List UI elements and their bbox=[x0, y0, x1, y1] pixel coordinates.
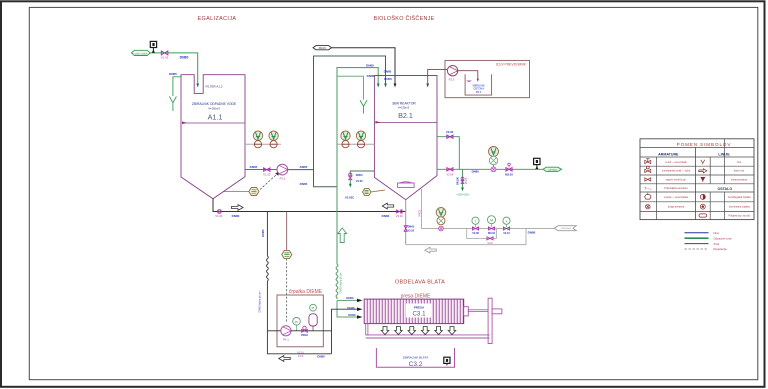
svg-text:PRESA: PRESA bbox=[414, 305, 425, 309]
svg-text:DN80: DN80 bbox=[367, 74, 375, 78]
gauge PI bbox=[293, 318, 301, 331]
node level line A1.1 bbox=[182, 122, 245, 124]
svg-text:V2.08: V2.08 bbox=[472, 232, 479, 235]
svg-text:M: M bbox=[490, 219, 493, 223]
valve V2.08 with gauge bbox=[472, 217, 479, 235]
line legend bbox=[685, 231, 733, 251]
wire branch P1.1 riser down to green main bbox=[314, 170, 338, 187]
svg-text:IZTOK: IZTOK bbox=[548, 168, 557, 172]
legend symbols right column bbox=[699, 160, 707, 217]
svg-text:V2.06: V2.06 bbox=[446, 130, 454, 134]
wire green main down to press (with hose wave) bbox=[336, 187, 338, 299]
press hub bbox=[464, 307, 469, 316]
blower A1 bbox=[253, 131, 262, 148]
svg-text:slepa armatura: slepa armatura bbox=[731, 178, 748, 181]
svg-text:Regulacija: Regulacija bbox=[714, 247, 728, 251]
svg-text:PRG2: PRG2 bbox=[301, 334, 308, 337]
svg-text:DN65: DN65 bbox=[250, 165, 258, 169]
svg-text:V1.01: V1.01 bbox=[161, 56, 169, 60]
svg-text:ARMATURE: ARMATURE bbox=[658, 152, 679, 156]
svg-text:ZRAK: ZRAK bbox=[319, 46, 327, 50]
svg-text:V2.03C: V2.03C bbox=[345, 196, 354, 200]
branch Y outfall B2.1 bbox=[337, 76, 364, 99]
wire B2.1 bottom drain drop bbox=[405, 200, 407, 245]
valve V2.10 bbox=[503, 217, 510, 235]
svg-text:T—⌞: T—⌞ bbox=[644, 186, 651, 190]
svg-text:V1.03: V1.03 bbox=[215, 214, 223, 218]
inlet pennant ODPADNA VODA bbox=[131, 50, 150, 55]
svg-text:DN80: DN80 bbox=[180, 56, 189, 60]
motor valve on iztok bbox=[489, 147, 499, 172]
svg-text:presa DIEME: presa DIEME bbox=[401, 293, 431, 299]
svg-text:Pripravljalna armatura: Pripravljalna armatura bbox=[664, 187, 688, 190]
pump P1.1 bbox=[277, 164, 288, 180]
block arrow left bottom bbox=[279, 356, 291, 362]
svg-text:FILTER A1.2: FILTER A1.2 bbox=[206, 85, 223, 89]
legend symbols left column bbox=[644, 159, 651, 209]
svg-text:C3.2: C3.2 bbox=[409, 361, 423, 368]
damper vessel bbox=[309, 304, 317, 330]
wire press feed bottom bbox=[337, 300, 358, 317]
svg-text:Izcentrirana črpalka: Izcentrirana črpalka bbox=[729, 206, 751, 209]
wire discharge riser to press bbox=[332, 309, 359, 354]
tank A1.1 bbox=[169, 72, 245, 199]
press end stub bbox=[492, 309, 502, 314]
press left leg bbox=[366, 324, 368, 335]
valve V2.01 on pipe right bbox=[396, 210, 404, 218]
block arrow up (green) beside green main bbox=[338, 228, 347, 243]
svg-text:IZLIV PREVZEMNIK: IZLIV PREVZEMNIK bbox=[496, 62, 527, 66]
flag marker iztok bbox=[534, 158, 540, 169]
flag marker C3.2 bbox=[444, 357, 450, 365]
svg-text:B2.1: B2.1 bbox=[398, 111, 413, 120]
wire suction P2.3 from tank bbox=[428, 69, 448, 84]
branch ODVOD bbox=[462, 169, 464, 188]
wire discharge P4.1 bbox=[291, 330, 332, 332]
svg-text:DN65 tlačna pl.cev: DN65 tlačna pl.cev bbox=[259, 291, 262, 313]
box DELOV bbox=[445, 60, 530, 97]
legend labels right column bbox=[728, 161, 751, 218]
wire dashed control to P4.1 bbox=[286, 259, 288, 322]
svg-text:V3.02: V3.02 bbox=[408, 229, 415, 232]
wire press feed top bbox=[337, 299, 358, 301]
valve V2.03 pneumatic bbox=[349, 173, 352, 180]
valve hex pneumatic A1.1 bbox=[249, 188, 259, 196]
tank B2.1 bbox=[337, 76, 437, 200]
wire upper tap V2.06 bbox=[437, 137, 459, 170]
valve V2.04 bbox=[447, 168, 453, 171]
svg-text:DN50: DN50 bbox=[356, 173, 363, 177]
press label box bbox=[406, 304, 432, 318]
filter press C3.1 body bbox=[364, 299, 464, 324]
measuring tank B2.3 bbox=[465, 74, 492, 95]
wire blower line A bbox=[245, 143, 281, 145]
blower B1 bbox=[341, 131, 350, 148]
block arrow left on pipe bbox=[382, 203, 394, 209]
wire suction into pump bbox=[267, 330, 280, 332]
svg-text:PRG: PRG bbox=[400, 209, 403, 214]
blower B2 bbox=[356, 131, 365, 148]
svg-text:tlačni vod: tlačni vod bbox=[734, 170, 745, 173]
wire air line into B2.1 bbox=[332, 48, 395, 85]
inlet arrow into filter bbox=[196, 84, 199, 88]
valve V1.01 bbox=[161, 51, 169, 60]
blower pair A (at tank A1.1) bbox=[245, 131, 281, 148]
svg-text:DN80: DN80 bbox=[317, 354, 325, 358]
svg-text:DN50: DN50 bbox=[346, 296, 354, 300]
svg-text:Nivo: Nivo bbox=[714, 231, 720, 235]
svg-text:DN65: DN65 bbox=[261, 229, 265, 237]
svg-text:DN65: DN65 bbox=[408, 225, 415, 228]
svg-text:V2.05: V2.05 bbox=[465, 177, 468, 184]
valve hex pneumatic on drop bbox=[282, 251, 292, 259]
svg-text:BIOLOŠKO ČIŠČENJE: BIOLOŠKO ČIŠČENJE bbox=[373, 15, 434, 22]
svg-text:DN80: DN80 bbox=[472, 170, 480, 174]
pennant grey left bbox=[554, 226, 576, 231]
pennant IZTOK bbox=[543, 167, 562, 172]
svg-text:V=160m3: V=160m3 bbox=[208, 107, 220, 111]
svg-text:Centrifugalna črpalka: Centrifugalna črpalka bbox=[728, 196, 751, 199]
blower A2 bbox=[269, 131, 278, 148]
motor valve on grey line bbox=[436, 208, 446, 231]
svg-text:P4.1: P4.1 bbox=[283, 338, 289, 342]
valve M motor bbox=[488, 216, 496, 235]
svg-text:DN80: DN80 bbox=[384, 69, 392, 73]
press hatch plates bbox=[367, 299, 463, 324]
svg-text:DN65: DN65 bbox=[169, 72, 177, 76]
pump P4.1 bbox=[281, 326, 291, 342]
svg-text:EGALIZACIJA: EGALIZACIJA bbox=[198, 16, 237, 22]
svg-text:V2.10: V2.10 bbox=[503, 232, 510, 235]
wire green return rail x337 into B2.1 bbox=[337, 68, 378, 187]
free outfall Y symbol A1.1 bbox=[169, 97, 176, 112]
blower pair B (at tank B2.1) bbox=[337, 131, 374, 148]
svg-text:DN50: DN50 bbox=[384, 77, 392, 81]
wire inlet green line bbox=[150, 53, 197, 85]
wire maroon drop to hex valve bbox=[286, 212, 288, 251]
svg-text:druga armatura: druga armatura bbox=[668, 206, 685, 209]
press end plate bbox=[488, 298, 492, 343]
svg-text:POMEN SIMBOLOV: POMEN SIMBOLOV bbox=[677, 142, 732, 147]
svg-text:V1.02: V1.02 bbox=[263, 173, 271, 177]
svg-text:DN65: DN65 bbox=[300, 182, 308, 186]
svg-text:PI: PI bbox=[312, 306, 315, 310]
svg-text:OBDELAVA BLATA: OBDELAVA BLATA bbox=[395, 280, 445, 286]
wire suction A1.1 to P1.1 bbox=[245, 169, 277, 171]
svg-text:Loputa — pnevmatska: Loputa — pnevmatska bbox=[664, 196, 689, 199]
svg-text:nivo: nivo bbox=[737, 161, 742, 164]
valve M2.05 bbox=[505, 163, 513, 176]
valve PRG2 bbox=[301, 326, 308, 337]
wire iztok main bbox=[437, 168, 543, 170]
svg-text:DN100: DN100 bbox=[457, 177, 460, 185]
valve hex on hopper left slant bbox=[363, 188, 386, 195]
svg-text:V2.9: V2.9 bbox=[487, 242, 493, 245]
svg-text:DN65: DN65 bbox=[300, 165, 308, 169]
svg-text:PRG3: PRG3 bbox=[419, 209, 422, 216]
svg-text:Zrak: Zrak bbox=[714, 242, 720, 246]
valve V1.03 on pipe bbox=[215, 210, 223, 218]
box crpalka DIEME bbox=[277, 295, 323, 347]
svg-text:OSTALO: OSTALO bbox=[717, 187, 732, 191]
svg-text:DN80: DN80 bbox=[232, 214, 240, 218]
svg-text:DN65 tlačna pl.cev: DN65 tlačna pl.cev bbox=[340, 272, 343, 294]
svg-text:PI: PI bbox=[295, 320, 298, 324]
svg-text:A1.1: A1.1 bbox=[208, 112, 223, 121]
wire left drain tap B2.1 bbox=[350, 171, 374, 176]
wire blower line B bbox=[337, 143, 374, 145]
svg-text:zaporni ventil sl.ojn.: zaporni ventil sl.ojn. bbox=[666, 178, 687, 181]
svg-text:membranski ventil — ročni: membranski ventil — ročni bbox=[662, 170, 691, 173]
svg-text:DN65: DN65 bbox=[366, 63, 374, 67]
svg-text:V=135m3: V=135m3 bbox=[398, 106, 410, 110]
wire from hopper slant to valve row bbox=[422, 189, 555, 229]
section titles bbox=[198, 15, 446, 300]
press support rails bbox=[366, 334, 490, 336]
valve V2.9 on bypass bbox=[487, 237, 493, 240]
svg-text:M3.02: M3.02 bbox=[488, 232, 496, 235]
container C3.2 bbox=[376, 348, 454, 368]
svg-text:C3.1: C3.1 bbox=[412, 311, 426, 318]
svg-text:ventil — pnevmatski: ventil — pnevmatski bbox=[665, 161, 687, 164]
wire drain U loop bbox=[406, 229, 526, 245]
svg-text:črpalka DIEME: črpalka DIEME bbox=[289, 289, 323, 295]
svg-text:DN40: DN40 bbox=[348, 313, 356, 317]
wire discharge P2.3 bbox=[457, 71, 478, 80]
svg-text:ZBIRALNIK BLATA: ZBIRALNIK BLATA bbox=[403, 356, 428, 360]
press shaft bbox=[468, 310, 488, 312]
svg-text:Odpadne vode: Odpadne vode bbox=[714, 236, 733, 240]
legend labels left column bbox=[662, 161, 691, 209]
block arrow left under U loop bbox=[425, 247, 437, 253]
svg-text:Potopna črp. na vod: Potopna črp. na vod bbox=[728, 214, 750, 217]
wire dashed control to P1.1 bbox=[260, 175, 277, 190]
svg-text:ZBIRALNIK ODPADNE VODE: ZBIRALNIK ODPADNE VODE bbox=[192, 102, 237, 106]
wire discharge P1.1 to B2.1 (riser + top rail) bbox=[288, 56, 386, 170]
svg-text:M2.05: M2.05 bbox=[505, 172, 513, 176]
node level line B2.1 bbox=[375, 122, 437, 124]
svg-text:B2.3: B2.3 bbox=[476, 90, 482, 94]
aerator inside hopper bbox=[398, 182, 415, 188]
pump P2.3 bbox=[447, 66, 457, 82]
block arrow right on pipe bbox=[232, 205, 244, 211]
svg-text:SBR REAKTOR: SBR REAKTOR bbox=[392, 101, 416, 105]
svg-text:A: A bbox=[505, 219, 507, 223]
pennant ZRAK bbox=[313, 46, 332, 51]
svg-text:P1.1: P1.1 bbox=[280, 177, 286, 181]
svg-text:DN80: DN80 bbox=[528, 231, 536, 235]
press arrows down bbox=[381, 327, 456, 335]
svg-text:DN80: DN80 bbox=[382, 214, 390, 218]
flag marker inlet bbox=[150, 41, 156, 52]
valve on drain drop bbox=[400, 209, 422, 233]
wire bypass U bbox=[467, 229, 497, 239]
wire suction drop with hose wave bbox=[267, 212, 269, 331]
wire main sludge pipe A1.1 to B2.1 drop bbox=[213, 199, 406, 212]
svg-text:V2.03: V2.03 bbox=[356, 179, 363, 183]
wire stub to hex valve near A1.1 bbox=[224, 191, 249, 193]
svg-text:C1.0: C1.0 bbox=[298, 355, 304, 358]
overflow line + label DN65 bbox=[173, 77, 181, 96]
svg-text:odp.voda: odp.voda bbox=[135, 52, 148, 56]
legend table POMEN SIMBOLOV bbox=[640, 139, 754, 251]
svg-text:T: T bbox=[475, 219, 477, 223]
svg-text:P2.3: P2.3 bbox=[449, 78, 455, 82]
svg-text:+ODVOD+: +ODVOD+ bbox=[456, 192, 470, 196]
valve V1.02 bbox=[264, 168, 270, 172]
wire bottom loop bbox=[267, 331, 331, 354]
svg-text:V2.04: V2.04 bbox=[447, 172, 454, 176]
